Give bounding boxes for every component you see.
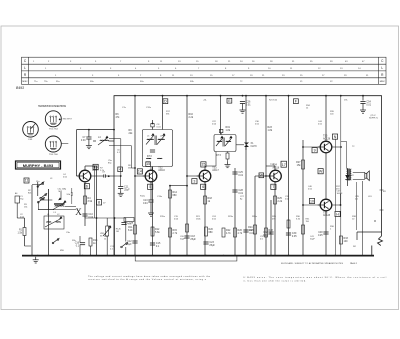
loudspeaker — [365, 171, 370, 181]
wire — [88, 130, 90, 137]
junction — [288, 255, 290, 257]
wire — [85, 217, 126, 219]
svg-text:W: W — [260, 173, 264, 177]
junction — [134, 255, 136, 257]
resistor — [106, 226, 109, 236]
svg-text:MW: MW — [60, 250, 64, 252]
wire — [186, 96, 188, 256]
label box 15 — [201, 162, 206, 167]
svg-text:0.01: 0.01 — [249, 232, 254, 235]
label box E — [227, 98, 232, 103]
capacitor C18 — [184, 236, 189, 238]
junction — [113, 129, 115, 131]
svg-text:0.25: 0.25 — [318, 234, 323, 237]
junction — [31, 255, 33, 257]
wire — [76, 130, 78, 170]
capacitor C48 — [323, 232, 328, 234]
resistor R1 — [17, 228, 26, 236]
wire — [85, 165, 97, 167]
svg-text:0.01: 0.01 — [366, 103, 371, 106]
label box 9 — [312, 148, 317, 153]
svg-text:N: N — [334, 135, 337, 139]
wire — [234, 168, 236, 256]
chassis bottom bus — [22, 255, 374, 257]
wire — [47, 189, 49, 210]
ground — [148, 210, 154, 216]
wire — [32, 184, 44, 186]
transistor TS3 — [197, 166, 220, 181]
wire — [380, 189, 384, 191]
junction — [302, 204, 304, 206]
svg-text:25μF: 25μF — [124, 188, 130, 191]
capacitor C23 — [203, 242, 208, 244]
wire — [16, 203, 18, 218]
svg-text:TS3: TS3 — [212, 166, 217, 169]
wire — [131, 167, 135, 169]
svg-text:IFT3: IFT3 — [216, 155, 221, 157]
wire — [38, 209, 54, 211]
resistor R25 — [274, 196, 283, 204]
junction — [169, 255, 171, 257]
IF transformer — [142, 130, 172, 167]
svg-text:MISC: MISC — [380, 81, 386, 83]
label box H — [335, 211, 340, 216]
wire — [150, 182, 152, 190]
wire — [130, 146, 132, 168]
junction — [265, 255, 267, 257]
svg-text:SUPPLY): SUPPLY) — [369, 117, 378, 119]
wire — [84, 166, 86, 170]
svg-text:AF116: AF116 — [158, 169, 165, 172]
coil — [147, 138, 153, 141]
junction — [114, 255, 116, 257]
capacitor C28 — [232, 190, 237, 192]
adjust arrow — [225, 136, 232, 146]
wire — [90, 246, 92, 256]
svg-text:13: 13 — [94, 165, 98, 169]
underpass wire — [135, 256, 237, 261]
resistor R18 — [204, 196, 213, 204]
junction — [254, 255, 256, 257]
junction — [325, 255, 327, 257]
wire — [254, 176, 256, 256]
wire — [150, 202, 152, 210]
resistor R22 — [222, 228, 231, 237]
wire — [356, 182, 358, 230]
bias diode X2 — [345, 175, 350, 179]
resistor R13 — [89, 238, 98, 246]
svg-text:0.04: 0.04 — [88, 216, 93, 219]
wire — [364, 178, 366, 179]
wire — [162, 96, 164, 130]
svg-text:is less than one ohm the value: is less than one ohm the value is omitte… — [243, 279, 306, 282]
label box 8 — [97, 200, 102, 206]
svg-text:D: D — [164, 99, 167, 103]
svg-text:0.01: 0.01 — [238, 192, 243, 195]
wire — [40, 199, 52, 201]
svg-text:TS5-TS6: TS5-TS6 — [49, 154, 59, 156]
wire — [76, 170, 78, 176]
svg-text:KEYBOARD: SUBJECT TO ALTER: KEYBOARD: SUBJECT TO ALTERNATIVE SPEAKER… — [281, 262, 344, 265]
junction — [96, 217, 98, 219]
aerial socket — [15, 196, 20, 203]
capacitor C11 — [118, 187, 123, 189]
junction — [114, 217, 116, 219]
wire — [152, 167, 154, 256]
wire — [236, 144, 244, 146]
wire — [77, 175, 78, 177]
svg-text:0.04: 0.04 — [143, 202, 148, 205]
wire — [96, 166, 98, 256]
ground — [240, 107, 246, 113]
svg-text:R23a: R23a — [228, 216, 234, 218]
wire — [371, 246, 373, 256]
resistor — [302, 225, 305, 234]
diode X1 — [244, 143, 249, 148]
wire — [266, 165, 275, 167]
wire — [341, 141, 347, 143]
svg-text:1.8k: 1.8k — [226, 129, 231, 132]
wire — [255, 175, 269, 177]
wire — [220, 133, 222, 135]
capacitor C32 — [268, 232, 273, 234]
ground — [225, 162, 231, 168]
transistor TS5 — [318, 135, 332, 153]
resistor R20 — [205, 227, 214, 236]
capacitor C13 — [148, 200, 153, 202]
label box F — [294, 99, 299, 104]
junction — [125, 255, 127, 257]
capacitor — [150, 150, 155, 152]
wire — [325, 211, 327, 256]
coil — [100, 139, 108, 142]
svg-text:B493: B493 — [16, 86, 24, 90]
junction — [134, 175, 136, 177]
wire — [245, 147, 247, 150]
svg-text:receiver switched to the A ran: receiver switched to the A range and the… — [88, 278, 207, 281]
wire — [37, 202, 39, 210]
svg-text:R12a: R12a — [140, 196, 146, 198]
wire — [288, 96, 290, 256]
wire — [302, 140, 304, 256]
transistor TS6 — [318, 199, 332, 217]
wire — [335, 217, 337, 256]
svg-text:R15a: R15a — [160, 216, 166, 218]
wire — [380, 209, 384, 211]
wire — [361, 181, 363, 256]
wire — [346, 142, 348, 169]
svg-text:AC128: AC128 — [323, 214, 331, 217]
capacitor C15 — [150, 243, 155, 245]
wire — [347, 179, 349, 186]
wire — [38, 209, 76, 211]
ground — [360, 107, 366, 113]
capacitor C54 — [360, 102, 365, 104]
IFT3 trimmer — [220, 129, 223, 132]
capacitor C39 — [286, 233, 291, 235]
wire — [17, 217, 24, 219]
resistor R26 — [234, 228, 243, 237]
svg-text:0.04: 0.04 — [81, 139, 86, 142]
svg-text:C13a: C13a — [157, 196, 163, 198]
svg-text:TS2: TS2 — [158, 166, 163, 169]
svg-text:AF117: AF117 — [212, 169, 219, 172]
svg-text:L: L — [381, 66, 383, 70]
svg-text:C12a: C12a — [146, 107, 152, 109]
ground — [86, 143, 92, 149]
svg-text:680: 680 — [209, 231, 214, 234]
junction — [90, 255, 92, 257]
junction — [340, 95, 342, 97]
adjust arrow — [146, 134, 154, 145]
junction — [265, 95, 267, 97]
label box 10 — [309, 198, 314, 203]
resistor R33 — [340, 236, 349, 244]
svg-text:17: 17 — [282, 163, 286, 167]
svg-text:15: 15 — [146, 162, 150, 166]
wire — [170, 185, 187, 187]
svg-text:If B493 noise. The case temper: If B493 noise. The case temperature was … — [243, 276, 386, 279]
wire — [340, 194, 342, 205]
junction — [223, 255, 225, 257]
wire — [205, 165, 216, 167]
wire — [215, 152, 217, 167]
junction — [96, 255, 98, 257]
svg-text:AC128: AC128 — [323, 137, 331, 140]
wire — [109, 140, 115, 142]
wire — [265, 96, 267, 256]
label box 4 — [118, 167, 123, 172]
svg-text:X: X — [75, 207, 82, 217]
svg-text:5.6k: 5.6k — [155, 231, 160, 234]
label box 6 — [84, 184, 89, 189]
svg-text:2.7k: 2.7k — [173, 232, 178, 235]
svg-text:H: H — [336, 212, 339, 216]
adjust arrow — [98, 136, 108, 145]
resistor — [287, 220, 290, 228]
component locator table — [22, 57, 387, 84]
svg-text:8.2k: 8.2k — [128, 229, 133, 232]
switch contact — [38, 197, 45, 203]
wire — [187, 175, 199, 177]
svg-text:1.8k: 1.8k — [268, 129, 273, 132]
wire — [353, 171, 365, 173]
junction — [88, 129, 90, 131]
wire — [120, 176, 122, 186]
resistor R12 — [151, 227, 160, 236]
label box 17 — [281, 161, 287, 167]
wire — [79, 245, 81, 256]
svg-text:TS1-TS4: TS1-TS4 — [49, 129, 59, 131]
svg-text:3: 3 — [193, 180, 195, 184]
wire — [169, 185, 171, 256]
wire — [135, 175, 145, 177]
junction — [82, 255, 84, 257]
junction — [152, 255, 154, 257]
switch contact — [37, 182, 44, 188]
wire — [106, 236, 108, 256]
wire — [93, 166, 95, 218]
wire — [84, 182, 86, 226]
wire — [274, 166, 276, 170]
coil — [217, 140, 222, 143]
svg-text:100: 100 — [344, 240, 349, 243]
ground — [118, 190, 124, 196]
ground — [33, 257, 39, 263]
svg-text:100μF: 100μF — [337, 193, 344, 195]
svg-text:MURPHY - B493: MURPHY - B493 — [23, 163, 54, 168]
switch contact — [40, 193, 47, 199]
wire — [204, 166, 206, 170]
junction — [186, 175, 188, 177]
svg-text:9: 9 — [314, 149, 316, 153]
coil — [226, 140, 231, 143]
junction — [205, 255, 207, 257]
svg-text:3.9k: 3.9k — [88, 200, 93, 203]
resistor R14 — [169, 190, 178, 198]
svg-text:The voltage and current readin: The voltage and current readings have be… — [88, 275, 211, 278]
HT supply top bus — [114, 96, 382, 256]
wire — [31, 185, 33, 256]
coil — [47, 221, 52, 224]
wire — [364, 172, 366, 173]
svg-text:7: 7 — [272, 185, 274, 189]
resistor R15 — [169, 228, 178, 237]
svg-text:AF116: AF116 — [273, 166, 280, 169]
svg-text:IFT2: IFT2 — [147, 156, 152, 158]
wire — [274, 182, 276, 256]
wire — [356, 232, 358, 240]
junction — [265, 175, 267, 177]
IF transformer — [214, 135, 236, 152]
wire — [37, 182, 39, 196]
wire — [335, 139, 337, 211]
svg-text:25μF: 25μF — [190, 238, 196, 241]
wire — [150, 167, 152, 171]
svg-text:0.01: 0.01 — [238, 174, 243, 177]
junction — [302, 146, 304, 148]
adjust arrow — [216, 136, 223, 146]
svg-text:25μF: 25μF — [209, 244, 215, 247]
capacitor C16 — [80, 243, 85, 245]
wire — [242, 104, 244, 108]
junction — [288, 95, 290, 97]
svg-text:2.2k: 2.2k — [189, 116, 194, 119]
wire — [204, 182, 206, 256]
svg-text:PAGE 2: PAGE 2 — [350, 262, 358, 265]
wire — [47, 189, 49, 256]
wire — [152, 120, 154, 124]
svg-text:6: 6 — [86, 185, 88, 189]
label box 3 — [192, 179, 197, 184]
wire — [65, 206, 77, 208]
adjust arrow — [59, 192, 61, 200]
svg-text:50μF: 50μF — [180, 239, 186, 241]
svg-text:1M: 1M — [116, 231, 119, 233]
wire — [325, 153, 327, 199]
svg-text:C18a: C18a — [127, 222, 133, 225]
ferrite rod aerial L1 L2 — [44, 216, 64, 229]
label box 15 — [146, 162, 151, 167]
transistor TS2 — [143, 166, 166, 181]
label box 6 — [201, 184, 206, 189]
svg-text:680: 680 — [173, 194, 178, 197]
capacitor C18a — [121, 223, 126, 225]
junction — [325, 95, 327, 97]
transistor TS1 — [77, 166, 100, 181]
transistor TS4 — [267, 164, 281, 182]
wire — [106, 175, 121, 177]
wire — [79, 236, 81, 243]
svg-text:TRANSISTOR CONNECTIONS: TRANSISTOR CONNECTIONS — [38, 105, 66, 108]
adjust arrow — [103, 226, 111, 236]
connection diagram TS1-TS4 — [45, 111, 61, 131]
svg-text:6: 6 — [202, 185, 204, 189]
svg-text:W: W — [319, 170, 323, 174]
trimmer — [151, 124, 154, 127]
svg-text:0.05: 0.05 — [292, 235, 297, 238]
wire — [270, 200, 272, 256]
junction — [362, 95, 364, 97]
wire — [340, 96, 342, 256]
wire — [152, 167, 154, 171]
junction — [106, 255, 108, 257]
wire — [150, 190, 152, 200]
adjust arrow — [45, 217, 62, 227]
wire — [325, 96, 327, 142]
resistor R7 horizontal — [124, 218, 134, 222]
wire — [227, 159, 229, 162]
svg-text:0.01: 0.01 — [246, 103, 251, 106]
svg-text:M: M — [374, 220, 376, 223]
wire — [84, 216, 86, 218]
wire — [357, 231, 382, 233]
svg-text:25μF: 25μF — [126, 243, 132, 246]
connector hook — [378, 236, 383, 246]
coil — [158, 157, 163, 160]
wire — [125, 247, 127, 256]
svg-text:TS5: TS5 — [323, 135, 328, 138]
junction — [186, 255, 188, 257]
svg-text:L: L — [24, 66, 26, 70]
label box W — [259, 173, 264, 178]
capacitor C29 — [243, 230, 248, 232]
svg-text:2.2k: 2.2k — [278, 200, 283, 203]
svg-text:11: 11 — [25, 179, 29, 183]
svg-text:1.5k: 1.5k — [17, 231, 22, 234]
connection diagram FS1 — [23, 122, 39, 141]
junction — [186, 185, 188, 187]
svg-text:14: 14 — [138, 170, 142, 174]
coil — [147, 157, 152, 160]
wire — [93, 140, 96, 142]
svg-text:4.7k: 4.7k — [226, 232, 231, 235]
capacitor C26 — [240, 102, 245, 104]
coil — [56, 221, 61, 224]
resistor R11 — [128, 225, 137, 234]
resistor R28 — [265, 228, 274, 237]
svg-text:RED SPOT: RED SPOT — [63, 119, 73, 121]
wire — [71, 195, 73, 204]
label box D — [163, 99, 168, 104]
capacitor C10 — [82, 214, 87, 216]
wire — [303, 204, 320, 206]
wire — [120, 189, 122, 191]
junction — [270, 255, 272, 257]
label box 11 — [24, 178, 29, 183]
wire — [77, 129, 115, 131]
wire — [353, 178, 365, 180]
